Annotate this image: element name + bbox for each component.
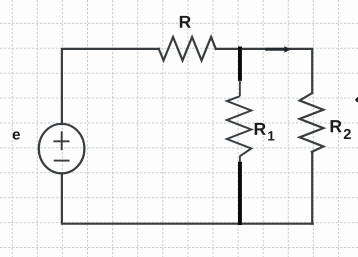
plus sign of source [53,131,69,150]
wire R1 thick bottom bar [238,162,242,225]
minus sign of source [54,160,70,162]
wire top-right segment [216,49,312,93]
cursor fragment at right edge [355,97,358,102]
resistor R2 [300,93,324,152]
label R [180,16,191,28]
wire R1 thick top bar [238,47,242,81]
wire R1 thin lead top [239,81,241,97]
current arrow [265,46,291,52]
wire bottom segment [62,174,313,224]
voltage source e (circle) [39,124,85,174]
resistor R1 [227,96,251,156]
label e [13,131,20,139]
wire top-left segment [62,49,159,124]
label R1 [255,123,275,141]
label R2 [331,120,351,139]
resistor R [159,37,216,60]
wire right-bottom segment [311,152,313,224]
wire R1 thin lead bottom [239,156,241,161]
